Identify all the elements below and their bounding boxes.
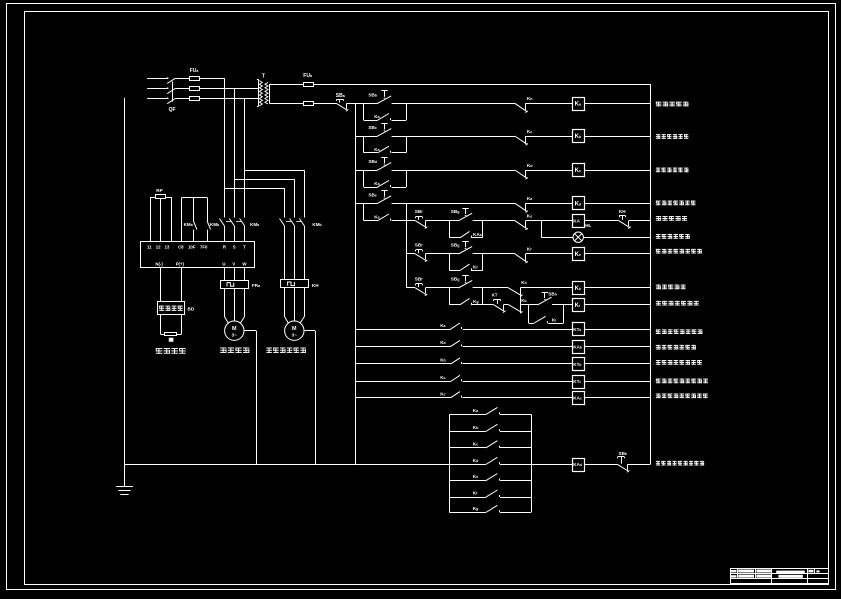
seal 4a bottom-left <box>449 237 460 239</box>
seal 4a left <box>449 221 451 238</box>
transformer T <box>257 79 271 106</box>
label RP <box>156 188 162 193</box>
wire secondary bottom <box>271 103 304 105</box>
block row2 wire right <box>500 431 531 433</box>
wire 4a e <box>584 220 619 222</box>
seal contact 4c <box>460 298 472 304</box>
contact K seal rung1 <box>377 114 390 121</box>
wire rung1 a <box>347 103 378 105</box>
label SB3 <box>368 159 377 164</box>
stop button 4a <box>415 217 427 229</box>
bus right vertical <box>650 84 652 464</box>
block row6 wire right <box>500 497 531 499</box>
contact NC K rung4 <box>515 203 528 212</box>
title block <box>730 568 828 584</box>
transformer T label <box>262 74 265 80</box>
contact NC K rung2 <box>515 136 528 145</box>
contact K block7 <box>486 505 500 512</box>
svg-text:Kb: Kb <box>527 96 533 101</box>
wire rung4 from rail <box>355 203 377 205</box>
wires FR1 to motor M1 <box>224 288 244 323</box>
svg-text:Kh: Kh <box>521 280 527 285</box>
start button 4c <box>458 275 472 288</box>
label K low5 <box>440 391 445 396</box>
svg-text:10F: 10F <box>188 244 196 249</box>
wire low4 c <box>584 381 650 383</box>
net label row 13 <box>656 379 708 384</box>
contact NC K 4a <box>515 221 528 230</box>
wire 4b e <box>584 253 650 255</box>
label K seal rung3 <box>374 181 380 186</box>
contact K low3 <box>451 358 462 364</box>
label SB start 4a <box>451 209 460 214</box>
braking resistor R <box>161 333 182 342</box>
label SB start 4c <box>451 276 460 281</box>
wire 2nd b <box>520 304 538 306</box>
wire low3 a <box>355 363 450 365</box>
svg-text:SBf: SBf <box>415 209 423 214</box>
svg-text:HL: HL <box>585 223 591 228</box>
wire low3 c <box>584 363 650 365</box>
svg-text:M: M <box>292 326 297 332</box>
svg-text:SBd: SBd <box>368 159 377 164</box>
wire low2 a <box>355 346 450 348</box>
wire low5 c <box>584 397 650 399</box>
label K block3 <box>473 441 478 446</box>
net label row 9 <box>656 301 699 306</box>
seal 4b bottom-left <box>449 270 460 272</box>
contact NC K rung3 <box>515 170 528 179</box>
svg-text:KTb: KTb <box>573 362 581 367</box>
wire rung3 c <box>526 170 573 172</box>
seal 4a right <box>482 221 484 238</box>
wire low1 b <box>463 329 573 331</box>
svg-text:Kc: Kc <box>527 129 532 134</box>
block row3 wire right <box>500 447 531 449</box>
motor M2 <box>285 321 304 340</box>
net label row 10 <box>656 329 702 334</box>
net label row 15 <box>656 461 704 466</box>
wire RP wiper <box>160 202 162 241</box>
seal branch rung1 right <box>406 103 408 120</box>
wire 4a f <box>629 220 650 222</box>
svg-text:3~: 3~ <box>292 333 298 338</box>
svg-text:N(-): N(-) <box>155 261 163 266</box>
svg-text:Kb: Kb <box>473 425 479 430</box>
seal branch rung3 left <box>363 170 365 187</box>
pushbutton SB3 <box>377 158 391 171</box>
wire L3 to fuse <box>175 98 189 100</box>
net label row 8 <box>656 285 686 290</box>
label K seal 4c <box>473 299 479 304</box>
seal 4b left <box>449 254 451 270</box>
thermal relay FR1 <box>221 281 249 289</box>
thermal NC contact KH 4a <box>619 216 631 229</box>
svg-text:KMb: KMb <box>210 222 220 227</box>
potentiometer RP <box>151 195 171 203</box>
svg-text:Ki: Ki <box>552 318 556 323</box>
svg-text:7F0: 7F0 <box>200 244 208 249</box>
seal branch rung4 bottom-left <box>364 220 378 222</box>
stop button bottom <box>617 457 629 473</box>
contact K low2 <box>451 340 462 346</box>
wire rung4 d <box>584 203 650 205</box>
wire M1 PE <box>244 331 257 465</box>
svg-text:SBg: SBg <box>451 276 460 281</box>
label K block1 <box>473 408 479 413</box>
contact KMa aux <box>193 221 197 229</box>
coil K 2nd <box>573 299 585 312</box>
wire L3 drop <box>244 98 246 217</box>
start button 2nd <box>538 292 552 305</box>
label KMb aux <box>210 222 220 227</box>
label main motor <box>220 348 249 353</box>
wire 4b a <box>406 253 415 255</box>
label K nc rung1 <box>527 96 533 101</box>
wire rung2 c <box>526 136 573 138</box>
wire rung3 d <box>584 170 650 172</box>
block row4 wire left <box>449 464 486 466</box>
svg-text:Kb: Kb <box>440 340 446 345</box>
wire 4c a <box>406 287 415 289</box>
label SB stop <box>336 93 346 99</box>
wire pi mid upper <box>193 198 195 222</box>
wire low4 b <box>463 381 573 383</box>
wire ground drop <box>124 98 126 487</box>
contact K block3 <box>486 441 500 448</box>
wire U1 to FR1 <box>224 268 226 280</box>
label SB2 <box>368 125 376 130</box>
block row7 wire right <box>500 512 531 514</box>
label SB stop 4b <box>415 242 423 247</box>
label K block7 <box>473 506 479 511</box>
net label row 7 <box>656 249 702 254</box>
label KH <box>312 283 319 288</box>
svg-text:SBf: SBf <box>415 242 423 247</box>
wire low2 c <box>584 346 650 348</box>
svg-text:SBk: SBk <box>619 451 627 456</box>
svg-text:KMb: KMb <box>312 222 322 227</box>
seal contact 4a <box>460 231 472 237</box>
seal 2nd left <box>528 305 530 324</box>
wire rung1 c <box>526 103 573 105</box>
seal 4c left <box>449 288 451 305</box>
contactor KMb poles <box>280 219 305 280</box>
wire L2 to fuse <box>175 88 189 90</box>
wire low3 b <box>463 363 573 365</box>
svg-text:KAb: KAb <box>573 344 582 349</box>
label KT nc <box>492 292 498 297</box>
wire low2 b <box>463 346 573 348</box>
label BD <box>188 307 195 312</box>
svg-text:T: T <box>262 74 265 80</box>
svg-text:C8: C8 <box>178 244 184 249</box>
wire 2nd c <box>552 304 572 306</box>
wire lamp to bus <box>583 237 650 239</box>
seal branch rung1 left <box>363 103 365 120</box>
wire 4b c <box>473 253 515 255</box>
svg-text:Kb: Kb <box>440 358 446 363</box>
svg-text:SBb: SBb <box>368 93 377 98</box>
wire rung4 b <box>392 203 515 205</box>
wire 4a b <box>426 220 450 222</box>
label K nc rung4 <box>527 196 533 201</box>
label K nc 2nd <box>521 298 527 303</box>
coil K 4b <box>573 248 585 261</box>
svg-text:Kc: Kc <box>440 375 445 380</box>
label K nc rung2 <box>527 129 532 134</box>
wire 4a a <box>406 220 415 222</box>
seal branch rung2 bottom-left <box>364 152 378 154</box>
net label row 2 <box>656 134 688 139</box>
wire bottom row c <box>628 464 651 466</box>
net label row 14 <box>656 394 708 399</box>
wire RP right <box>171 197 173 241</box>
wire 4b d <box>526 253 573 255</box>
label K seal rung1 <box>374 114 380 119</box>
wire low5 b <box>463 397 573 399</box>
contact K low1 <box>451 323 462 329</box>
wire rung2 from rail <box>355 136 377 138</box>
wire low1 c <box>584 329 650 331</box>
label FU2 <box>303 73 313 79</box>
fuse FU1 pole 3 <box>190 97 200 101</box>
svg-text:KTc: KTc <box>573 379 581 384</box>
thermal relay KH <box>281 280 309 288</box>
wire to stop button <box>314 103 337 105</box>
seal 4c right <box>482 288 484 305</box>
label KMa <box>250 222 260 227</box>
seal contact 4b <box>460 264 472 270</box>
block row1 wire left <box>449 414 486 416</box>
svg-text:KT: KT <box>492 292 498 297</box>
seal contact 2nd <box>533 316 547 323</box>
net label row 4 <box>656 201 696 206</box>
stop button 4c <box>415 284 427 296</box>
svg-text:SBc: SBc <box>368 125 376 130</box>
svg-text:Ke: Ke <box>527 213 532 218</box>
time contact KT <box>493 299 505 312</box>
seal 2nd bottom-left <box>529 323 534 325</box>
wire 4a c <box>473 220 515 222</box>
wire secondary top <box>271 84 304 86</box>
coil K 4c <box>573 282 585 295</box>
stop button 4b <box>415 250 427 262</box>
label K nc 4b <box>527 247 532 252</box>
contact NC arm 4c <box>508 288 522 297</box>
coil KA low5 <box>573 392 585 405</box>
svg-text:QF: QF <box>169 107 176 113</box>
pushbutton NC SBa <box>336 99 348 111</box>
wire U3 to FR1 <box>244 268 246 280</box>
circuit breaker QF <box>167 78 175 103</box>
seal branch rung1 bottom-left <box>364 120 378 122</box>
label KMa aux <box>184 222 194 227</box>
label SB start 4b <box>451 242 460 247</box>
wire rung4 c <box>526 203 573 205</box>
label braking resistor <box>156 348 186 354</box>
svg-text:Kf: Kf <box>473 265 478 270</box>
wire 4c e <box>584 287 650 289</box>
wire rung3 from rail <box>355 170 377 172</box>
label K low1 <box>440 323 446 328</box>
svg-text:KH: KH <box>312 283 319 288</box>
wire pi right lower <box>207 230 209 242</box>
wire 4c c <box>473 287 509 289</box>
VFD bottom terminal labels <box>155 261 247 266</box>
coil K2 <box>573 130 585 143</box>
wire low4 a <box>355 381 450 383</box>
net label row 1 <box>656 102 689 107</box>
wire branch L3 <box>245 170 305 217</box>
wire 2nd a <box>504 304 509 306</box>
seal 4c bottom-left <box>449 304 460 306</box>
net label row 11 <box>656 345 696 350</box>
contact NC K rung1 <box>515 103 528 112</box>
block row3 wire left <box>449 447 486 449</box>
start button 4a <box>458 208 472 221</box>
svg-text:SBh: SBh <box>548 292 557 297</box>
label KMb <box>312 222 322 227</box>
label FU1 <box>190 68 200 74</box>
seal branch rung3 bottom-right <box>392 187 407 189</box>
svg-text:SBg: SBg <box>451 209 460 214</box>
fuse FU2 bottom <box>304 102 314 106</box>
contact K seal rung3 <box>377 180 390 187</box>
wire low1 a <box>355 329 450 331</box>
label K block4 <box>473 458 479 463</box>
seal 2nd right <box>563 305 565 324</box>
coil KT low3 <box>573 358 585 371</box>
coil KA bottom <box>573 459 585 472</box>
svg-text:12: 12 <box>156 244 161 249</box>
wire M2 PE <box>304 331 316 465</box>
label K block6 <box>473 491 478 496</box>
coil KA low2 <box>573 341 585 354</box>
svg-text:SBg: SBg <box>451 242 460 247</box>
svg-text:Kf: Kf <box>473 491 478 496</box>
contactor KMa poles <box>219 219 244 242</box>
motor M1 <box>225 321 244 340</box>
label K block2 <box>473 425 479 430</box>
label SB 2nd <box>548 292 557 297</box>
svg-text:Kb: Kb <box>521 298 527 303</box>
block rail left <box>449 414 451 512</box>
contact K block4 <box>486 457 500 464</box>
svg-text:Kd: Kd <box>473 458 479 463</box>
svg-text:T: T <box>243 244 246 249</box>
block row6 wire left <box>449 497 486 499</box>
start button 4b <box>458 241 472 254</box>
wire 4a b2 <box>449 220 458 222</box>
label K seal rung4 <box>374 215 380 220</box>
wire P to BD <box>181 268 183 302</box>
label K nc 4c <box>521 280 527 285</box>
wire L1 to fuse <box>175 78 189 80</box>
svg-text:P(+): P(+) <box>176 261 185 266</box>
wire L2 east <box>200 88 258 90</box>
wire rung2 d <box>584 136 650 138</box>
svg-text:M: M <box>232 326 237 332</box>
wire N to BD <box>160 268 162 302</box>
ground symbol <box>116 487 133 495</box>
wire bottom row to coil <box>531 464 572 466</box>
block row5 wire left <box>449 480 486 482</box>
wire phase L3 stub <box>147 97 168 99</box>
contact KMb aux <box>207 221 211 229</box>
wire 4c d <box>520 287 572 289</box>
svg-text:V: V <box>232 261 235 266</box>
svg-text:Kf: Kf <box>527 247 532 252</box>
block row7 wire left <box>449 512 486 514</box>
label KH nc 4a <box>619 209 626 214</box>
coil K1 <box>573 98 585 111</box>
contact K seal rung4 <box>377 214 390 221</box>
wire rung1 b <box>392 103 515 105</box>
seal 2nd bottom-right <box>548 323 563 325</box>
label K low3 <box>440 358 446 363</box>
svg-text:Kg: Kg <box>473 506 479 511</box>
label SB stop 4a <box>415 209 423 214</box>
label pump motor <box>266 348 306 353</box>
seal 4c bottom-right <box>471 304 483 306</box>
svg-text:Kg: Kg <box>473 299 479 304</box>
net label row 3 <box>656 168 688 173</box>
wire control top bus <box>314 84 651 86</box>
fuse FU2 top <box>304 83 314 87</box>
seal branch rung2 left <box>363 136 365 153</box>
wire pi mid lower <box>193 230 195 242</box>
wire phase L2 stub <box>147 87 168 89</box>
wire pi right upper <box>207 198 209 222</box>
block row1 wire right <box>500 414 531 416</box>
net label row 12 <box>656 360 702 365</box>
contact K seal rung2 <box>377 146 390 153</box>
coil KT low4 <box>573 376 585 389</box>
label K seal 2nd <box>552 318 556 323</box>
wire 2nd from seal bottom <box>483 304 494 306</box>
svg-text:KMa: KMa <box>250 222 260 227</box>
seal branch rung1 bottom-right <box>392 120 407 122</box>
wire branch L1 <box>224 188 284 217</box>
wire bottom bus mid <box>355 464 449 466</box>
label FR1 <box>252 283 261 288</box>
svg-text:KTa: KTa <box>573 327 581 332</box>
node vertical K 4c <box>520 288 522 313</box>
svg-text:KH: KH <box>619 209 626 214</box>
seal branch rung4 right <box>406 203 408 220</box>
label SB bottom <box>619 451 627 456</box>
block row4 wire right <box>500 464 531 466</box>
wire 4b b <box>426 253 450 255</box>
svg-text:S: S <box>233 244 236 249</box>
label K seal 4a <box>473 232 483 237</box>
wire rung2 b <box>392 136 515 138</box>
pushbutton SB4 <box>377 191 391 204</box>
contact K block2 <box>486 424 500 431</box>
coil KA 4a <box>573 215 585 228</box>
label SB1 <box>368 93 377 98</box>
wire BD down right <box>181 315 183 335</box>
contact NC K 4b <box>515 254 528 263</box>
contact K low5 <box>451 392 462 398</box>
label SB stop 4c <box>415 276 423 281</box>
label K nc rung3 <box>527 163 533 168</box>
svg-text:11: 11 <box>147 244 152 249</box>
wire 4c b <box>426 287 450 289</box>
contact NC arm 2nd <box>508 305 522 314</box>
label K seal rung2 <box>374 147 380 152</box>
